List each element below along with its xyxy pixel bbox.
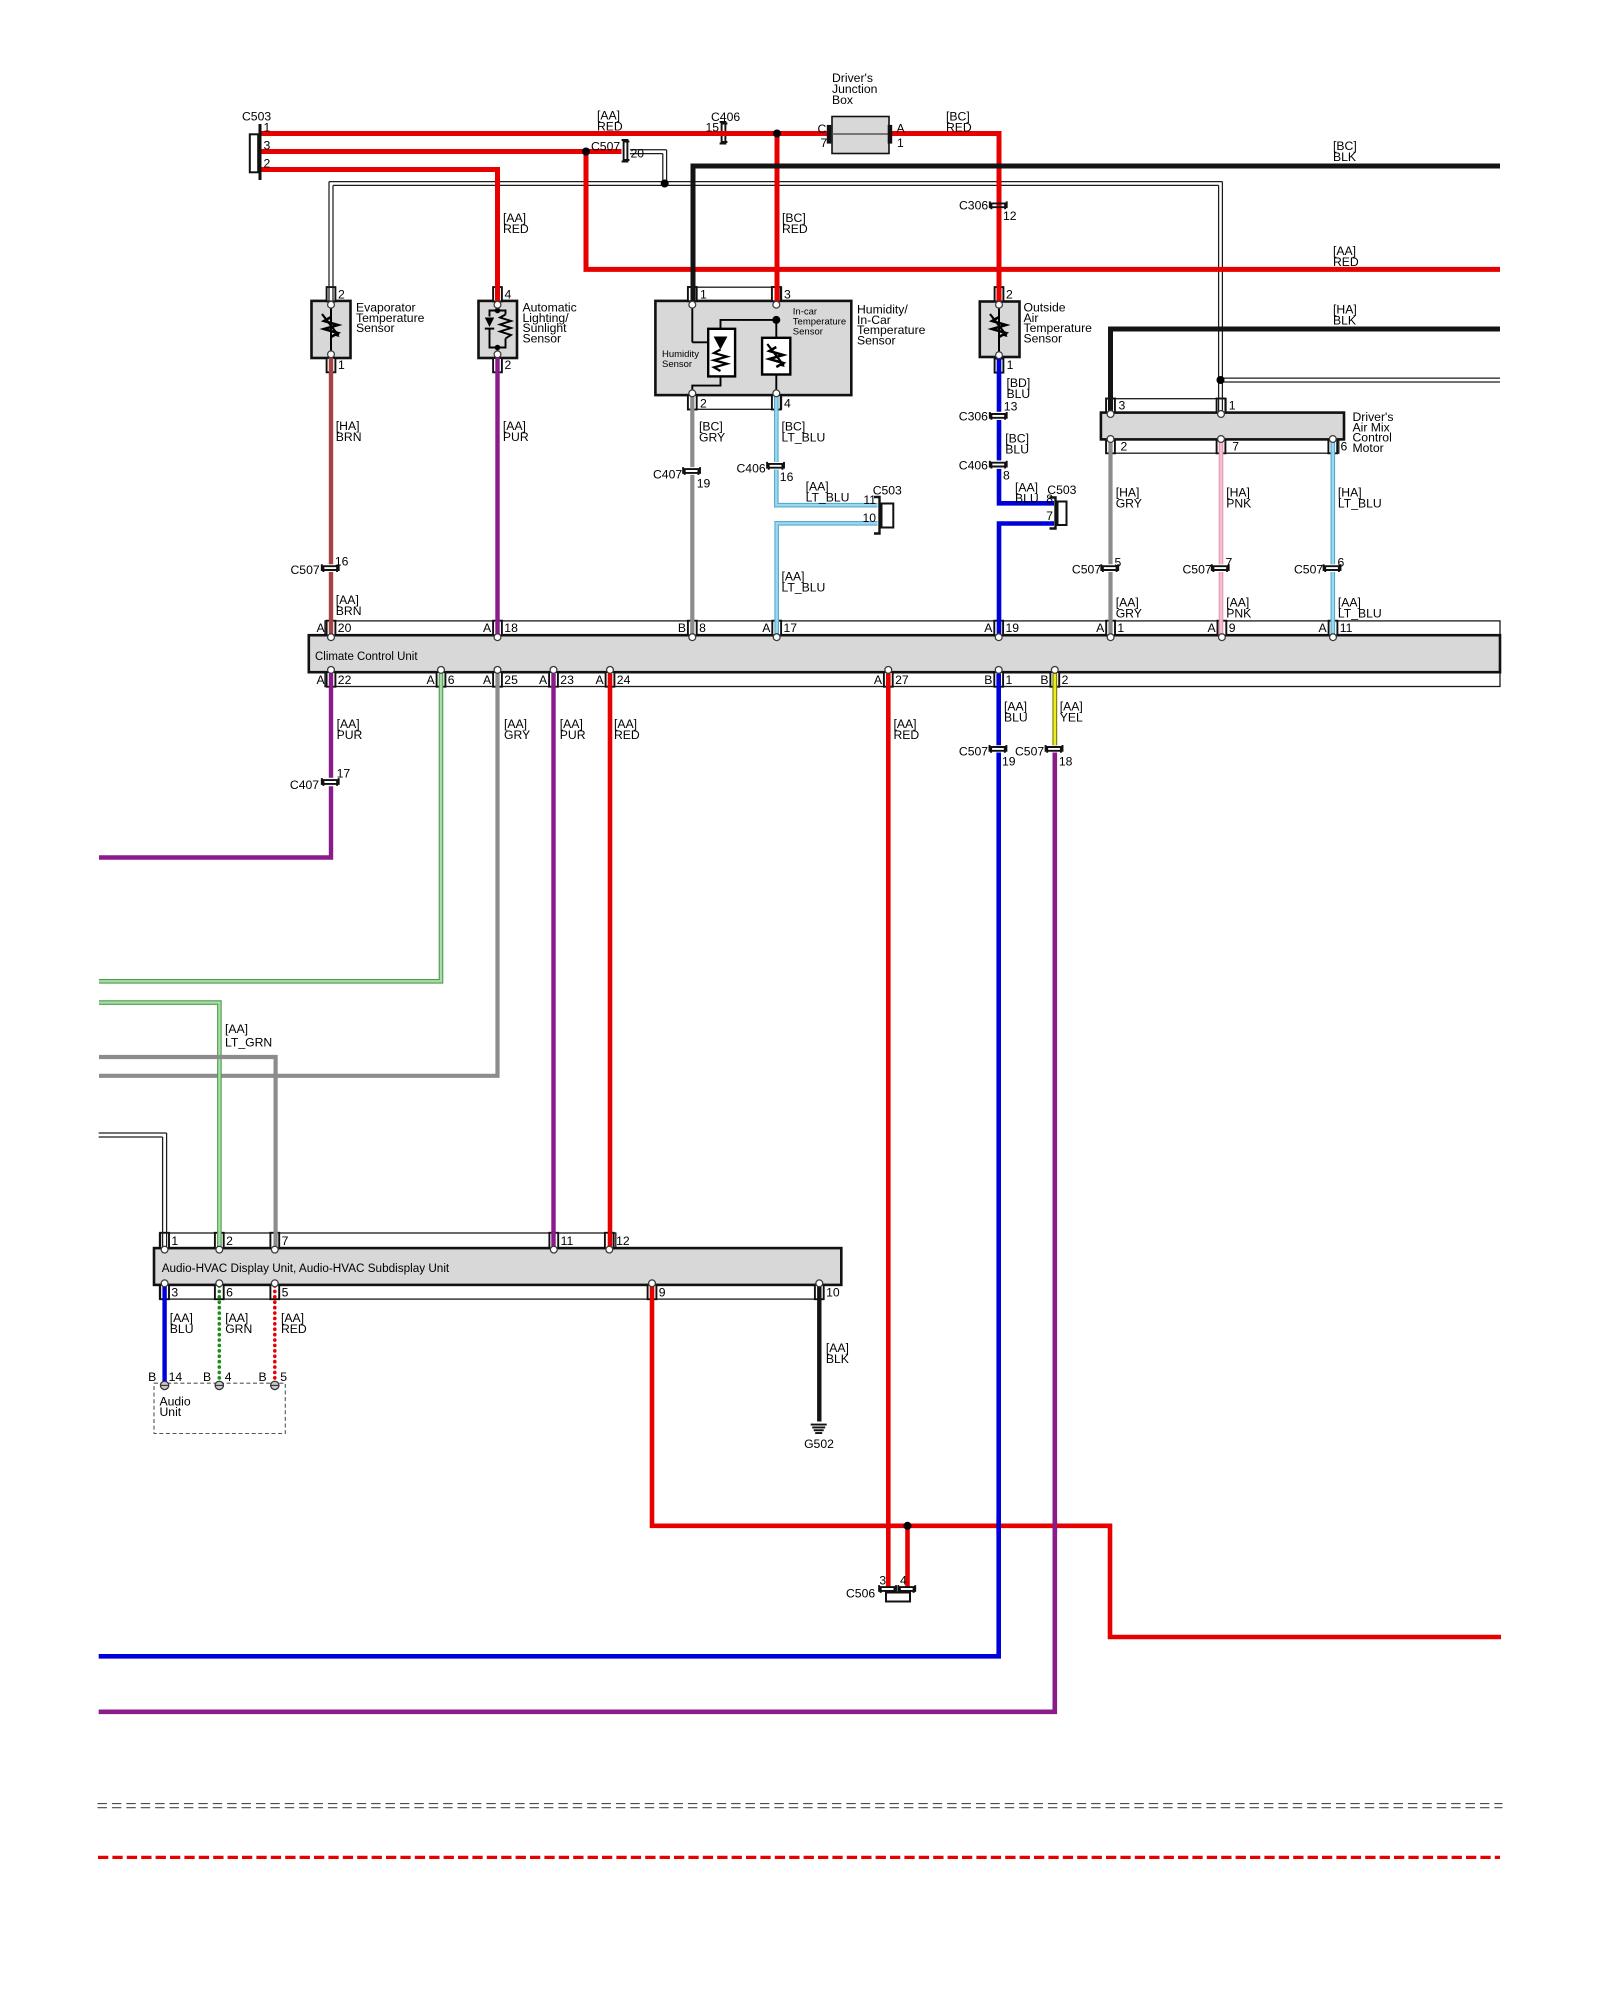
wire [AA] RED Audio-HVAC pin9 down right bbox=[652, 1286, 1501, 1637]
connector C507-7 bbox=[1213, 566, 1227, 572]
pin box Humidity sensor pin 3 bbox=[772, 287, 781, 301]
pin box Audio-HVAC bottom x=219.3 bbox=[215, 1285, 224, 1300]
pin box CCU bottom x=888.3 bbox=[884, 672, 893, 687]
svg-text:8: 8 bbox=[1003, 469, 1010, 483]
svg-text:G502: G502 bbox=[804, 1437, 834, 1451]
svg-text:11: 11 bbox=[561, 1234, 574, 1248]
connector C507-16 bbox=[323, 566, 337, 572]
svg-text:BLK: BLK bbox=[1333, 150, 1356, 164]
pin box Automatic Lighting pin 2 bbox=[493, 358, 502, 372]
svg-text:3: 3 bbox=[879, 1574, 886, 1588]
connector C503 (top left) bbox=[250, 134, 258, 172]
svg-text:1: 1 bbox=[1117, 621, 1124, 635]
wire [HA]/[AA] GRY Air Mix pin2 to CCU A1 bbox=[1108, 440, 1112, 564]
pin box CCU bottom x=1054.8 bbox=[1050, 672, 1059, 687]
svg-text:14: 14 bbox=[169, 1370, 183, 1384]
pin circles Audio-HVAC top bbox=[161, 1246, 168, 1253]
svg-text:RED: RED bbox=[894, 728, 920, 742]
wire PUR C507-18 down-left bbox=[99, 753, 1055, 1712]
connector C507-20 bbox=[624, 142, 630, 161]
pin box Air Mix pin 7 bbox=[1217, 439, 1226, 453]
wire [HA]/[AA] LT_BLU Air Mix pin6 to CCU A11 bbox=[1331, 440, 1336, 564]
svg-text:3: 3 bbox=[784, 288, 791, 302]
wire [AA] YEL CCU B2 to C507-18 bbox=[1052, 674, 1057, 746]
wire [AA] RED branch down and right bbox=[586, 152, 1500, 270]
Humidity/In-Car Temperature Sensor pin strip top bbox=[688, 287, 782, 301]
svg-text:A: A bbox=[897, 122, 906, 136]
Driver's Air Mix Control Motor pin strip bottom bbox=[1106, 440, 1339, 454]
wire crossing overlay purple over red bbox=[1053, 1519, 1058, 1533]
wire white drop to Air Mix pin 1 bbox=[1221, 182, 1223, 411]
svg-text:RED: RED bbox=[614, 728, 640, 742]
svg-text:4: 4 bbox=[784, 397, 791, 411]
svg-text:LT_BLU: LT_BLU bbox=[782, 431, 826, 445]
Audio Unit dashed box bbox=[154, 1383, 285, 1433]
svg-text:C406: C406 bbox=[959, 459, 988, 473]
svg-text:PNK: PNK bbox=[1226, 606, 1251, 620]
svg-text:1: 1 bbox=[264, 121, 271, 135]
pin circles CCU bottom bbox=[328, 667, 335, 674]
pin box CCU top x=497.5 bbox=[493, 621, 502, 636]
svg-text:BLU: BLU bbox=[1005, 443, 1029, 457]
pin box Evaporator pin 2 bbox=[327, 287, 336, 301]
svg-text:2: 2 bbox=[338, 288, 345, 302]
svg-text:C507: C507 bbox=[1015, 745, 1044, 759]
svg-text:9: 9 bbox=[659, 1286, 666, 1300]
pin box Outside Air pin 2 bbox=[995, 287, 1004, 301]
svg-text:RED: RED bbox=[597, 120, 623, 134]
svg-text:9: 9 bbox=[1229, 621, 1236, 635]
pin box Audio-HVAC bottom x=819.3 bbox=[815, 1285, 824, 1300]
svg-text:15: 15 bbox=[706, 121, 720, 135]
svg-text:GRY: GRY bbox=[504, 728, 530, 742]
junction box pin C bbox=[827, 125, 832, 144]
svg-text:PNK: PNK bbox=[1226, 497, 1251, 511]
svg-text:4: 4 bbox=[505, 288, 512, 302]
svg-text:13: 13 bbox=[1004, 400, 1018, 414]
wire [AA] RED C503-3 to C507-20 bbox=[261, 149, 622, 154]
wire [BC] RED drop to In-car sensor pin 3 bbox=[775, 134, 780, 303]
wire GRY left to Audio-HVAC pin 7 bbox=[99, 1057, 276, 1248]
svg-text:B: B bbox=[1040, 673, 1048, 687]
svg-text:Audio-HVAC Display Unit, Audio: Audio-HVAC Display Unit, Audio-HVAC Subd… bbox=[162, 1261, 450, 1275]
pin box Audio-HVAC bottom x=164.6 bbox=[160, 1285, 169, 1300]
svg-text:B: B bbox=[678, 621, 686, 635]
svg-text:4: 4 bbox=[225, 1370, 232, 1384]
svg-text:7: 7 bbox=[1232, 440, 1239, 454]
svg-text:RED: RED bbox=[503, 222, 529, 236]
pin circles CCU top bbox=[328, 634, 335, 641]
wire [HA]/[AA] BRN Evaporator to CCU A20 bbox=[329, 355, 333, 564]
wire LT_GRN CCU A6 left bbox=[99, 674, 441, 982]
pin box CCU top x=998.7 bbox=[994, 621, 1003, 636]
svg-text:2: 2 bbox=[505, 358, 512, 372]
svg-text:A: A bbox=[762, 621, 771, 635]
svg-text:RED: RED bbox=[946, 121, 972, 135]
wire [AA] GRN dotted Audio-HVAC pin6 to Audio Unit B4 bbox=[218, 1286, 222, 1382]
svg-text:27: 27 bbox=[895, 673, 909, 687]
Humidity/In-Car Temperature Sensor pin strip bottom bbox=[688, 395, 782, 409]
pin box CCU bottom x=610 bbox=[606, 672, 615, 687]
svg-text:C507: C507 bbox=[1072, 563, 1101, 577]
thermistor symbol Evaporator bbox=[330, 302, 332, 354]
connector C406-16 bbox=[769, 464, 783, 470]
svg-text:C507: C507 bbox=[1294, 563, 1323, 577]
svg-text:LT_BLU: LT_BLU bbox=[806, 491, 850, 505]
svg-text:19: 19 bbox=[1006, 621, 1020, 635]
wire [AA] BLU to C503-8 bbox=[999, 469, 1054, 503]
Audio-HVAC Display Unit pin strip top bbox=[160, 1233, 616, 1248]
pin box CCU top x=331 bbox=[327, 621, 336, 636]
svg-text:20: 20 bbox=[631, 147, 645, 161]
svg-text:C406: C406 bbox=[737, 462, 766, 476]
svg-text:11: 11 bbox=[1340, 621, 1353, 635]
svg-text:17: 17 bbox=[784, 621, 798, 635]
connector C407-17 bbox=[323, 780, 337, 786]
svg-text:BRN: BRN bbox=[336, 430, 362, 444]
wire [AA] LT_BLU to C503-11 bbox=[776, 470, 877, 506]
svg-text:C407: C407 bbox=[290, 778, 319, 792]
in-car temperature sensor sub-box and thermistor bbox=[775, 323, 777, 391]
Driver's Junction Box body bbox=[832, 117, 889, 154]
svg-text:A: A bbox=[1207, 621, 1216, 635]
svg-text:25: 25 bbox=[504, 673, 518, 687]
svg-text:1: 1 bbox=[1006, 673, 1013, 687]
Automatic Lighting/Sunlight Sensor box bbox=[479, 301, 518, 358]
svg-text:22: 22 bbox=[338, 673, 352, 687]
connector C506 bbox=[881, 1587, 895, 1593]
svg-text:1: 1 bbox=[1007, 358, 1014, 372]
connector C406-8 bbox=[991, 463, 1005, 469]
pin box Humidity sensor pin 1 bbox=[688, 287, 697, 301]
svg-text:4: 4 bbox=[900, 1574, 907, 1588]
svg-text:GRY: GRY bbox=[699, 431, 725, 445]
svg-text:[AA]: [AA] bbox=[225, 1022, 248, 1036]
junction dot red y133.5 bbox=[773, 130, 781, 138]
svg-text:16: 16 bbox=[780, 470, 794, 484]
pin box Outside Air pin 1 bbox=[995, 359, 1004, 373]
svg-text:17: 17 bbox=[337, 767, 351, 781]
pin box CCU bottom x=331 bbox=[327, 672, 336, 687]
Climate Control Unit pin strip bottom bbox=[325, 672, 1500, 686]
svg-text:C507: C507 bbox=[1183, 563, 1212, 577]
pin box Air Mix pin 3 bbox=[1106, 399, 1115, 413]
svg-text:A: A bbox=[483, 673, 492, 687]
svg-text:1: 1 bbox=[1229, 399, 1236, 413]
svg-text:5: 5 bbox=[282, 1286, 289, 1300]
pin box Audio-HVAC top x=553.8 bbox=[549, 1233, 558, 1249]
svg-text:6: 6 bbox=[1338, 556, 1345, 570]
Driver's Air Mix Control Motor box bbox=[1101, 413, 1344, 440]
wire [AA] LT_BLU C503-10 to CCU A17 bbox=[777, 523, 878, 634]
connector C503-11/10 bbox=[874, 497, 880, 534]
wire [AA] BLU Audio-HVAC pin3 to Audio Unit B14 bbox=[162, 1286, 166, 1382]
svg-text:7: 7 bbox=[821, 136, 828, 150]
pin circles sensors bbox=[328, 301, 335, 308]
wire [HA]/[AA] PNK Air Mix pin7 to CCU A9 bbox=[1219, 440, 1224, 564]
svg-text:LT_BLU: LT_BLU bbox=[782, 580, 826, 594]
svg-text:3: 3 bbox=[264, 139, 271, 153]
svg-text:LT_BLU: LT_BLU bbox=[1338, 497, 1382, 511]
svg-text:A: A bbox=[1319, 621, 1328, 635]
svg-text:A: A bbox=[427, 673, 436, 687]
svg-text:Sensor: Sensor bbox=[662, 359, 692, 370]
connector C507-18 bbox=[1047, 747, 1061, 753]
svg-text:C507: C507 bbox=[291, 563, 320, 577]
terminal circles Audio Unit bbox=[160, 1381, 168, 1389]
svg-text:18: 18 bbox=[1059, 755, 1073, 769]
wire [AA] RED C503-1 to junction box bbox=[261, 131, 828, 136]
pin box CCU bottom x=441 bbox=[437, 672, 446, 687]
pin box CCU top x=776.7 bbox=[772, 621, 781, 636]
svg-text:C507: C507 bbox=[959, 745, 988, 759]
wire [BC]/[AA] GRY Humidity pin2 to CCU B8 bbox=[690, 396, 694, 467]
svg-text:2: 2 bbox=[264, 157, 271, 171]
connector C507-6 bbox=[1325, 566, 1339, 572]
svg-text:7: 7 bbox=[1046, 509, 1053, 523]
pin box Humidity sensor pin 2 bbox=[688, 395, 697, 409]
pin circles Air Mix Motor bbox=[1107, 411, 1114, 418]
pin box CCU top x=1110.6 bbox=[1106, 621, 1115, 636]
svg-text:3: 3 bbox=[1119, 399, 1126, 413]
svg-text:Sensor: Sensor bbox=[523, 331, 562, 345]
svg-text:BLK: BLK bbox=[826, 1352, 849, 1366]
svg-text:A: A bbox=[317, 673, 326, 687]
junction box pin A bbox=[888, 125, 893, 144]
connector C306-12 bbox=[991, 203, 1005, 209]
pin box CCU bottom x=553.5 bbox=[549, 672, 558, 687]
Climate Control Unit box bbox=[309, 635, 1500, 672]
svg-text:2: 2 bbox=[1062, 673, 1069, 687]
svg-text:18: 18 bbox=[504, 621, 518, 635]
svg-text:5: 5 bbox=[1115, 556, 1122, 570]
pin box CCU bottom x=497.5 bbox=[493, 672, 502, 687]
svg-text:7: 7 bbox=[1226, 556, 1233, 570]
junction dot white bus C507-20 branch bbox=[661, 180, 669, 188]
svg-text:LT_BLU: LT_BLU bbox=[1338, 606, 1382, 620]
junction dot red y151.5 bbox=[582, 148, 590, 156]
dashed gray separator line bbox=[98, 1803, 1502, 1805]
pin box Audio-HVAC top x=164.6 bbox=[160, 1233, 169, 1249]
pin box Audio-HVAC top x=274.8 bbox=[270, 1233, 279, 1249]
Audio-HVAC Display Unit box bbox=[154, 1248, 841, 1285]
ground G502 bbox=[811, 1424, 827, 1426]
svg-text:BLK: BLK bbox=[1333, 314, 1356, 328]
svg-text:6: 6 bbox=[448, 673, 455, 687]
connector C407-19 bbox=[685, 469, 699, 475]
svg-text:RED: RED bbox=[782, 222, 808, 236]
svg-text:LT_GRN: LT_GRN bbox=[225, 1036, 272, 1050]
svg-text:1: 1 bbox=[700, 288, 707, 302]
wire [AA] BLK Audio-HVAC pin10 to G502 bbox=[817, 1286, 821, 1422]
svg-text:Motor: Motor bbox=[1353, 441, 1384, 455]
svg-text:19: 19 bbox=[697, 477, 711, 491]
svg-text:5: 5 bbox=[280, 1370, 287, 1384]
wire [BD]/[BC] BLU Outside Air sensor down bbox=[997, 357, 1002, 412]
svg-text:B: B bbox=[984, 673, 992, 687]
svg-text:B: B bbox=[259, 1370, 267, 1384]
pin box CCU top x=1221.9 bbox=[1218, 621, 1227, 636]
svg-text:RED: RED bbox=[281, 1322, 307, 1336]
connector C503-8/7 bbox=[1050, 498, 1056, 529]
svg-text:12: 12 bbox=[1003, 209, 1017, 223]
wire white branch to right y380 bbox=[1221, 377, 1501, 379]
wire [AA] RED dotted Audio-HVAC pin5 to Audio Unit B5 bbox=[273, 1286, 277, 1382]
wire [BC] RED junction box to Outside Air sensor bbox=[889, 134, 999, 303]
svg-text:A: A bbox=[483, 621, 492, 635]
svg-text:1: 1 bbox=[897, 136, 904, 150]
junction dot red C506 branch bbox=[904, 1522, 912, 1530]
photodiode symbol Automatic Lighting bbox=[497, 302, 499, 311]
wire crossing overlay blue over red bbox=[996, 1519, 1001, 1533]
junction dot white bus y380 bbox=[1217, 376, 1225, 384]
wire [BC] BLK bbox=[693, 166, 1500, 302]
pin box Evaporator pin 1 bbox=[327, 358, 336, 372]
svg-text:6: 6 bbox=[1341, 440, 1348, 454]
svg-text:B: B bbox=[203, 1370, 211, 1384]
wire white to Audio-HVAC pin 1 bbox=[99, 1132, 167, 1134]
svg-text:Box: Box bbox=[832, 93, 853, 107]
svg-text:Sensor: Sensor bbox=[1024, 331, 1063, 345]
svg-text:GRY: GRY bbox=[1116, 606, 1142, 620]
pin box Automatic Lighting pin 4 bbox=[493, 287, 502, 301]
Audio-HVAC Display Unit pin strip bottom bbox=[160, 1285, 823, 1299]
pin box Audio-HVAC bottom x=652 bbox=[648, 1285, 657, 1300]
wire white drop to Evaporator pin 2 bbox=[328, 182, 330, 302]
connector C507-19 bbox=[991, 747, 1005, 753]
Outside Air Temperature Sensor box bbox=[980, 302, 1020, 358]
svg-text:A: A bbox=[1096, 621, 1105, 635]
svg-text:A: A bbox=[596, 673, 605, 687]
svg-text:11: 11 bbox=[863, 493, 876, 507]
wire [AA] GRY CCU A25 left bbox=[99, 674, 498, 1076]
wire white bus horizontal y183.5 bbox=[329, 181, 1222, 183]
svg-text:C306: C306 bbox=[959, 199, 988, 213]
Driver's Air Mix Control Motor pin strip top bbox=[1106, 399, 1226, 413]
svg-text:16: 16 bbox=[335, 555, 349, 569]
svg-text:1: 1 bbox=[171, 1234, 178, 1248]
thermistor symbol Outside Air bbox=[998, 302, 1000, 354]
pin box Audio-HVAC bottom x=274.8 bbox=[270, 1285, 279, 1300]
wire [AA] BLU CCU B1 down bbox=[996, 674, 1001, 746]
pin box CCU top x=692.3 bbox=[688, 621, 697, 636]
svg-text:2: 2 bbox=[1006, 288, 1013, 302]
connector C507-5 bbox=[1103, 566, 1117, 572]
connector C306-13 bbox=[991, 414, 1005, 420]
svg-text:BLU: BLU bbox=[170, 1322, 194, 1336]
svg-text:12: 12 bbox=[616, 1234, 630, 1248]
pin circles Audio-HVAC bottom bbox=[161, 1280, 168, 1287]
pin box CCU bottom x=998.7 bbox=[994, 672, 1003, 687]
svg-text:C407: C407 bbox=[653, 468, 682, 482]
pin box Air Mix pin 6 bbox=[1328, 439, 1337, 453]
svg-text:GRY: GRY bbox=[1116, 497, 1142, 511]
humidity sensor sub-box and diode bbox=[691, 307, 693, 342]
svg-text:Climate Control Unit: Climate Control Unit bbox=[315, 649, 418, 663]
svg-text:YEL: YEL bbox=[1060, 711, 1083, 725]
wire [AA] PUR CCU A23 to Audio-HVAC pin 11 bbox=[551, 674, 555, 1248]
svg-text:20: 20 bbox=[338, 621, 352, 635]
wire [AA] PUR Automatic Lighting to CCU A18 bbox=[495, 355, 499, 635]
svg-text:3: 3 bbox=[171, 1286, 178, 1300]
pin box Air Mix pin 2 bbox=[1106, 439, 1115, 453]
svg-text:BLU: BLU bbox=[1004, 711, 1028, 725]
svg-text:2: 2 bbox=[700, 397, 707, 411]
wire [AA] BLU C503-7 to CCU A19 bbox=[999, 524, 1054, 635]
svg-text:PUR: PUR bbox=[503, 430, 529, 444]
svg-text:23: 23 bbox=[560, 673, 574, 687]
svg-text:19: 19 bbox=[1002, 755, 1016, 769]
junction dot humidity internal bbox=[772, 316, 780, 324]
wire [HA] BLK bbox=[1111, 329, 1501, 411]
pin box Audio-HVAC top x=609.3 bbox=[605, 1233, 614, 1249]
svg-text:BRN: BRN bbox=[336, 604, 362, 618]
svg-text:10: 10 bbox=[826, 1286, 840, 1300]
svg-text:C306: C306 bbox=[959, 410, 988, 424]
svg-text:C507: C507 bbox=[591, 140, 620, 154]
svg-text:2: 2 bbox=[1121, 440, 1128, 454]
svg-text:BLU: BLU bbox=[1015, 492, 1039, 506]
pin box Audio-HVAC top x=219.3 bbox=[215, 1233, 224, 1249]
svg-text:A: A bbox=[874, 673, 883, 687]
wire RED branch to C506-4 bbox=[905, 1526, 910, 1587]
svg-text:7: 7 bbox=[282, 1234, 289, 1248]
pin box Humidity sensor pin 4 bbox=[772, 395, 781, 409]
svg-text:A: A bbox=[984, 621, 993, 635]
Evaporator Temperature Sensor box bbox=[312, 301, 351, 358]
connector C406-15 bbox=[722, 124, 728, 143]
svg-text:6: 6 bbox=[226, 1286, 233, 1300]
svg-text:GRN: GRN bbox=[225, 1322, 252, 1336]
wire [AA] LT_GRN left to Audio-HVAC pin 2 bbox=[99, 1003, 219, 1248]
svg-text:C503: C503 bbox=[873, 484, 902, 498]
svg-text:2: 2 bbox=[226, 1234, 233, 1248]
svg-text:RED: RED bbox=[1333, 255, 1359, 269]
svg-text:B: B bbox=[148, 1370, 156, 1384]
wire [BC] LT_BLU Humidity pin4 down bbox=[774, 396, 779, 462]
svg-text:8: 8 bbox=[1046, 492, 1053, 506]
svg-text:Sensor: Sensor bbox=[793, 326, 823, 337]
dashed red separator line bbox=[98, 1856, 1500, 1859]
svg-text:1: 1 bbox=[338, 358, 345, 372]
wire [AA] RED CCU A27 to C506-3 bbox=[886, 674, 891, 1588]
svg-text:Sensor: Sensor bbox=[857, 333, 896, 347]
pin box Air Mix pin 1 bbox=[1217, 399, 1226, 413]
svg-text:10: 10 bbox=[862, 511, 876, 525]
svg-text:C: C bbox=[818, 122, 827, 136]
Humidity/In-Car Temperature Sensor box bbox=[655, 301, 851, 395]
Climate Control Unit pin strip top bbox=[325, 621, 1500, 635]
wire [AA] PUR CCU A22 left bbox=[329, 674, 333, 778]
wire [AA] RED C503-2 to Automatic Lighting sensor bbox=[261, 170, 498, 303]
wire C507-20 white jog bbox=[630, 149, 667, 151]
svg-text:8: 8 bbox=[699, 621, 706, 635]
svg-text:Sensor: Sensor bbox=[356, 321, 395, 335]
svg-text:A: A bbox=[539, 673, 548, 687]
wire [AA] RED CCU A24 to Audio-HVAC pin 12 bbox=[608, 674, 613, 1248]
svg-text:24: 24 bbox=[617, 673, 631, 687]
svg-text:A: A bbox=[317, 621, 326, 635]
svg-text:PUR: PUR bbox=[560, 728, 586, 742]
svg-text:PUR: PUR bbox=[337, 728, 363, 742]
svg-text:C506: C506 bbox=[846, 1587, 875, 1601]
svg-text:Unit: Unit bbox=[160, 1405, 182, 1419]
pin box CCU top x=1333 bbox=[1329, 621, 1338, 636]
